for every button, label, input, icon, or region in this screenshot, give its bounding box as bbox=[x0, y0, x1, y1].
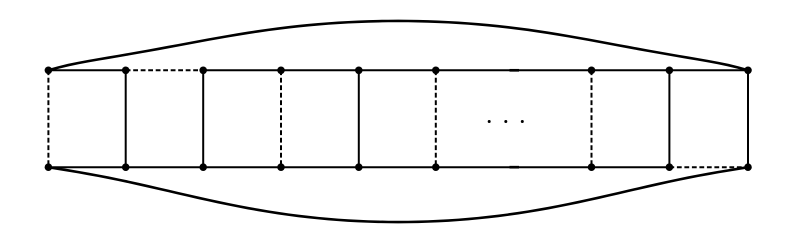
bottom edge v3'-v4' bbox=[203, 166, 281, 168]
top edge v4-v5 bbox=[281, 69, 359, 71]
rung edge v9-v9' bbox=[747, 70, 749, 167]
node v6' (bottom row) bbox=[432, 163, 440, 171]
top edge v3-v4 bbox=[203, 69, 281, 71]
node v7 (top row) bbox=[588, 67, 596, 75]
rung edge v8-v8' bbox=[668, 70, 670, 167]
ellipsis dots (continuation) bbox=[488, 120, 491, 123]
node v9 (top row) bbox=[744, 67, 752, 75]
node v1 (top row) bbox=[45, 67, 53, 75]
bottom edge v2'-v3' bbox=[126, 166, 204, 168]
node v8 (top row) bbox=[666, 67, 674, 75]
top edge v1-v2 bbox=[48, 69, 125, 71]
node v4 (top row) bbox=[277, 67, 285, 75]
top edge v5-v6 bbox=[359, 69, 436, 71]
rung edge v7-v7' (dashed) bbox=[591, 70, 593, 167]
node v2' (bottom row) bbox=[122, 163, 130, 171]
rung edge v3-v3' bbox=[202, 70, 204, 167]
outer top arc edge v1-v9 bbox=[48, 21, 748, 70]
rung edge v6-v6' (dashed) bbox=[435, 70, 437, 167]
bottom edge v4'-v5' bbox=[281, 166, 359, 168]
node v3' (bottom row) bbox=[199, 163, 207, 171]
rung edge v4-v4' (dashed) bbox=[280, 70, 282, 167]
line overlap mark on top edge bbox=[510, 69, 520, 72]
node v2 (top row) bbox=[122, 67, 130, 75]
rung edge v5-v5' bbox=[358, 70, 360, 167]
top edge v2-v3 (dashed) bbox=[126, 69, 204, 71]
bottom edge v5'-v6' bbox=[359, 166, 436, 168]
rung edge v2-v2' bbox=[125, 70, 127, 167]
line overlap mark on bottom edge bbox=[510, 166, 520, 169]
node v3 (top row) bbox=[199, 67, 207, 75]
node v1' (bottom row) bbox=[45, 163, 53, 171]
node v4' (bottom row) bbox=[277, 163, 285, 171]
outer bottom arc edge v1'-v9' bbox=[48, 167, 748, 222]
top edge v7-v8 bbox=[592, 69, 670, 71]
bottom edge v1'-v2' bbox=[48, 166, 125, 168]
bottom edge v7'-v8' bbox=[592, 166, 670, 168]
bottom edge v8'-v9' (dashed) bbox=[669, 166, 748, 168]
node v9' (bottom row) bbox=[744, 163, 752, 171]
rung edge v1-v1' (dashed) bbox=[47, 70, 49, 167]
top edge v8-v9 bbox=[669, 69, 748, 71]
node v8' (bottom row) bbox=[666, 163, 674, 171]
bottom edge v6'-v7' bbox=[436, 166, 592, 168]
node v5 (top row) bbox=[355, 67, 363, 75]
node v5' (bottom row) bbox=[355, 163, 363, 171]
node v6 (top row) bbox=[432, 67, 440, 75]
node v7' (bottom row) bbox=[588, 163, 596, 171]
top edge v6-v7 bbox=[436, 69, 592, 71]
